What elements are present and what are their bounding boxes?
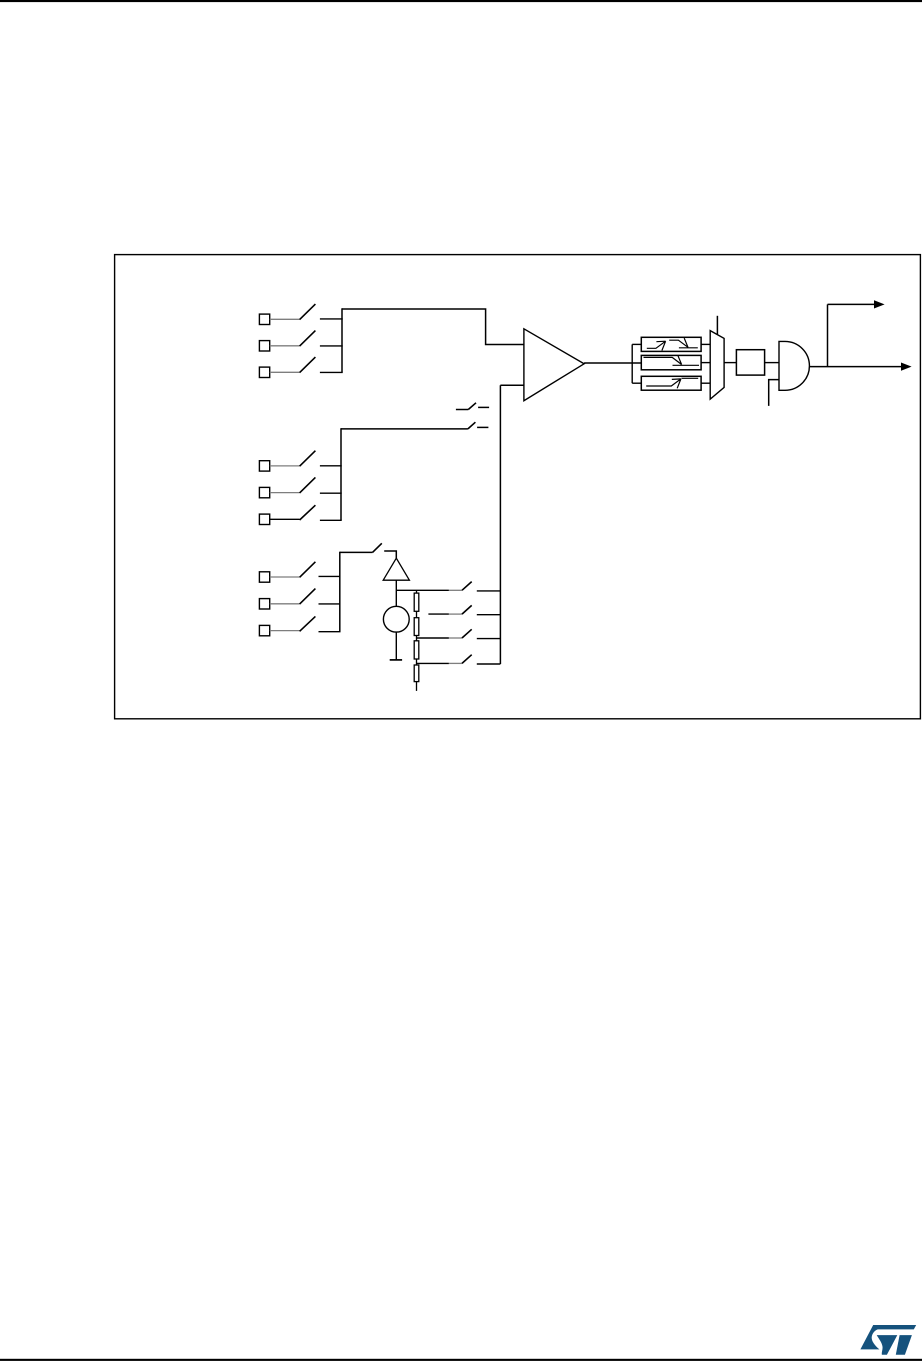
pad P4 [259,461,269,471]
wire mux output [724,362,736,364]
wire R4 tail [416,682,418,691]
pad P9 [259,625,269,635]
switch SW14 [462,605,472,614]
pad P8 [259,599,269,609]
wire SW13 lead [449,589,462,591]
wire R1 to R2 [416,611,418,617]
pad P5 [259,487,269,497]
wire SW2 to bus A [320,345,343,347]
pad P2 [259,341,269,351]
reference buffer D1 [383,558,409,580]
wire SW4 to bus B [320,465,342,467]
node ladder tap 1 [428,613,449,615]
glyph B1 falling edge [669,338,698,348]
wire U3 to gate [765,362,779,364]
node ladder tap 3 [417,662,449,664]
wire SW11 to bus C [319,631,341,633]
resistor R2 [414,618,419,636]
switch SW6 [300,505,316,520]
wire SW13 contact to minus bus [477,590,501,592]
node output branch [827,304,829,366]
mux U2 [710,331,724,400]
wire SW14 lead [449,613,462,615]
wire SW14 contact to minus bus [477,614,501,616]
wire minus bus to op-amp minus input [500,384,524,386]
glyph B1 rising edge [647,341,666,350]
op-amp U1 [524,329,584,401]
pad P7 [259,572,269,582]
wire R3 to R4 [416,659,418,665]
switch SW16 [462,655,472,664]
wire bus C [339,552,341,632]
wire SW9 to bus C [319,575,341,577]
arrow main output [901,363,912,371]
wire SW6 to bus B [320,519,342,521]
wire SW3 to bus A [320,371,343,373]
wire bus B [340,428,342,520]
wire SW10 to bus C [319,603,341,605]
wire D1 to current source [395,580,397,606]
wire SW1 to bus A [320,318,343,320]
wire gate output [810,366,902,368]
ST logo [860,1325,916,1355]
resistor R3 [414,641,419,659]
switch SW8 left dash [456,409,468,411]
wire I1 to ground [395,632,397,659]
current source I1 [383,606,409,632]
wire top output [828,303,875,305]
wire bus B top [341,428,468,430]
wire P2 lead [270,345,300,347]
wire SW5 to bus B [320,492,342,494]
wire B1 to mux [701,343,710,345]
wire B3 to mux [701,382,710,384]
switch SW5 [300,477,316,493]
switch SW9 [300,562,316,578]
wire SW15 contact to minus bus [477,638,501,640]
wire splitter to B1 [632,343,641,345]
wire P9 lead [270,630,300,632]
switch SW8 [468,403,476,410]
switch SW7 [468,422,476,429]
switch SW2 [300,331,316,347]
wire SW16 contact to minus bus [477,663,501,665]
arrow top output [874,300,885,308]
wire gate lower input [769,380,779,406]
wire P3 lead [270,371,300,373]
switch SW15 [462,629,472,638]
switch SW11 [300,616,316,631]
switch SW3 [300,357,316,373]
wire SW15 lead [449,637,462,639]
pad P6 [259,514,269,524]
wire bus C top [340,551,373,553]
resistor R4 [414,665,419,682]
wire bus A to op-amp plus input [342,309,524,345]
edge selector B3 [641,376,701,390]
wire SW16 lead [449,662,462,664]
wire minus bus [499,385,501,664]
wire mux select [716,316,718,335]
glyph B3 rising edge [646,378,698,388]
switch SW1 [300,304,316,320]
wire splitter bus [631,344,633,383]
pad P3 [259,367,269,377]
wire P4 lead [270,465,300,467]
wire U1 output [584,362,641,364]
switch SW12 [373,543,382,552]
wire splitter to B3 [632,382,641,384]
block U3 [736,350,764,375]
wire R2 to R3 [416,636,418,641]
glyph B2 falling edge [644,355,700,365]
pad P1 [259,314,269,324]
and-gate U4 [779,341,809,390]
node ladder tap 2 [417,637,449,639]
edge selector B1 [641,337,701,351]
ground [390,659,402,661]
wire B2 to mux [701,362,710,364]
wire P6 lead [270,518,300,520]
resistor R1 [416,590,418,593]
edge selector B2 [641,355,701,369]
wire bus A [341,308,343,372]
wire P8 lead [270,603,300,605]
switch SW4 [300,451,316,467]
wire SW12 contact to reference [384,551,396,558]
wire SW8 contact dash [478,406,489,408]
wire P7 lead [270,576,300,578]
wire P1 lead [270,318,300,320]
switch SW13 [462,582,472,591]
switch SW10 [300,589,316,605]
wire SW7 contact dash [477,426,488,428]
node ladder top [396,589,449,591]
wire P5 lead [270,492,300,494]
